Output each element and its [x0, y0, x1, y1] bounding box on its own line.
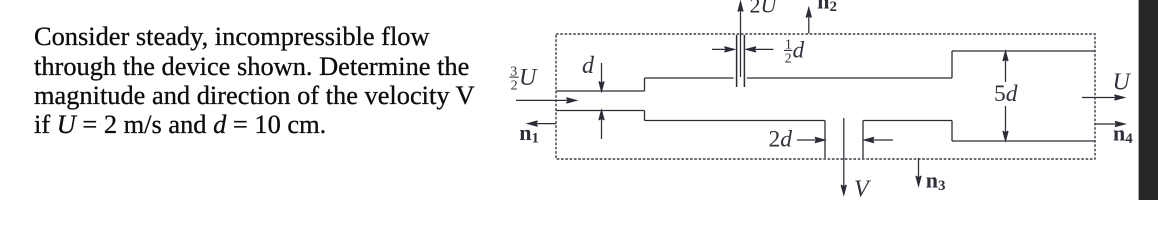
wire lower-left wall [556, 110, 645, 112]
wire lower step at x=952 [951, 121, 953, 142]
n4 outward normal arrow [1095, 123, 1120, 125]
bottom slot left wall [824, 121, 826, 159]
svg-text:n3: n3 [926, 167, 946, 194]
svg-text:U: U [1113, 69, 1132, 95]
svg-text:2U: 2U [750, 0, 779, 18]
U outlet flow arrow [1082, 97, 1119, 99]
half-d dimension arrow right (points left) [752, 48, 774, 50]
V outflow arrow [843, 118, 845, 190]
svg-text:n2: n2 [817, 0, 837, 15]
n3 outward normal arrow [918, 158, 920, 181]
svg-text:2: 2 [785, 51, 792, 66]
wire upper-middle wall right of chimney [747, 77, 952, 79]
5d dimension arrow lower (points down) [1005, 106, 1007, 136]
d dimension arrow lower (points up at wall) [601, 116, 603, 140]
wire upper-left wall [556, 90, 645, 92]
slot right side arrow (points left) [870, 139, 894, 141]
wire upper-right wall [952, 50, 1095, 52]
inlet flow arrow 3/2 U [516, 99, 571, 101]
d dimension arrow upper (points down at wall) [601, 63, 603, 86]
wire upper step at x=952 [951, 51, 953, 78]
svg-text:1: 1 [785, 37, 792, 52]
n1 outward normal arrow [533, 123, 556, 125]
svg-text:d: d [793, 38, 805, 63]
control surface dashed rectangle [556, 34, 1095, 159]
label 1/2 d (chimney width) [784, 37, 805, 66]
chimney tube right wall [743, 35, 745, 87]
wire upper step at x=644.5 [644, 78, 646, 91]
bottom slot right wall [862, 121, 864, 159]
half-d dimension arrow left (points right) [712, 48, 729, 50]
label 3/2 U [510, 64, 539, 93]
dark scrollbar/edge bar at right [1138, 0, 1158, 200]
n2 outward normal arrow [808, 13, 810, 34]
problem statement text [34, 22, 475, 139]
wire lower-middle wall [645, 120, 826, 122]
wire lower-right wall [952, 140, 1095, 142]
svg-text:d: d [582, 53, 595, 79]
svg-text:2d: 2d [769, 127, 793, 153]
wire lower wall right of slot [863, 120, 952, 122]
svg-text:V: V [854, 177, 871, 201]
svg-text:2: 2 [511, 79, 518, 94]
2d dimension arrow (points right at slot) [797, 139, 820, 141]
wire lower step at x=644.5 [644, 111, 646, 121]
svg-text:n4: n4 [1113, 120, 1133, 147]
wire upper-middle wall left of chimney [645, 77, 734, 79]
svg-text:U: U [519, 65, 538, 91]
5d dimension arrow upper (points up) [1005, 57, 1007, 83]
2U outflow arrow through chimney [740, 7, 742, 77]
chimney tube left wall [736, 35, 738, 87]
svg-text:5d: 5d [994, 81, 1018, 107]
